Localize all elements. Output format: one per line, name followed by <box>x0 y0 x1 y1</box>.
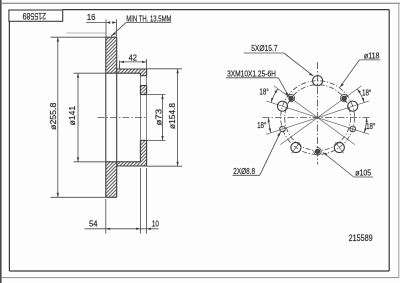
pitch circle dia 105 <box>285 85 351 151</box>
svg-text:ø154.8: ø154.8 <box>167 103 177 129</box>
dia 154.8 arrows <box>176 69 178 166</box>
dia 141 extension lines <box>74 73 106 162</box>
M10 thread hole left (306 deg) <box>288 94 295 101</box>
svg-text:18°: 18° <box>259 86 268 96</box>
thin projection lines (bore and bolt hole) <box>120 65 147 141</box>
friction band outline <box>106 37 117 197</box>
dia 141 arrows <box>77 73 79 162</box>
hub wall outer face <box>146 69 148 166</box>
dia 73 arrows <box>161 95 163 141</box>
svg-text:2XØ8.8: 2XØ8.8 <box>233 166 255 176</box>
svg-text:42: 42 <box>129 52 138 62</box>
scan top edge line <box>2 2 400 4</box>
dimension 54 and 10 extension lines <box>106 168 147 234</box>
bolt hole in section (edges) <box>140 76 146 86</box>
svg-text:ø118: ø118 <box>364 50 380 60</box>
svg-text:ø73: ø73 <box>154 109 164 126</box>
hole dia 8.8 left (252 deg) <box>280 126 286 132</box>
lug hole center tick marks <box>292 142 344 153</box>
hatch: hub wall above bore <box>140 86 146 95</box>
svg-text:ø141: ø141 <box>67 106 77 126</box>
hole dia 8.8 right (108 deg) <box>350 126 356 132</box>
leader 5X dia 15.7 <box>244 53 313 76</box>
hub wall inner face <box>139 73 141 162</box>
centre bore edges <box>140 95 146 141</box>
svg-text:10: 10 <box>152 218 159 228</box>
scan bottom edge line <box>2 277 399 279</box>
svg-text:215589: 215589 <box>22 11 46 21</box>
svg-text:5XØ15.7: 5XØ15.7 <box>251 43 278 53</box>
dia 255.8 arrows <box>57 37 59 197</box>
svg-text:ø105: ø105 <box>355 168 371 178</box>
horizontal centerline <box>263 117 372 119</box>
lug hole top (dia 15.7) <box>313 76 323 86</box>
18 deg dimension arcs <box>269 89 367 133</box>
leader dia 118 <box>340 60 381 87</box>
hat flange top outline <box>106 69 147 73</box>
scan left edge strip <box>0 0 2 283</box>
MIN TH leader arrow <box>111 32 116 36</box>
hatch: hub wall below bore <box>140 140 146 161</box>
hatch: bottom hat flange <box>117 162 147 166</box>
dia 141 dimension line <box>77 73 79 162</box>
svg-text:215589: 215589 <box>349 233 373 243</box>
dimension 42 extension lines <box>120 59 147 69</box>
svg-text:MIN TH. 13.5MM: MIN TH. 13.5MM <box>126 13 171 23</box>
dimension 54/10 line <box>85 228 159 230</box>
hatch: friction band upper part <box>106 37 117 73</box>
hatch: friction band lower part <box>106 162 117 198</box>
svg-text:18°: 18° <box>362 88 371 98</box>
dimension 42 arrows <box>120 61 147 63</box>
leader arrows <box>277 73 344 156</box>
dimension 42 line <box>120 61 147 63</box>
ghost scan artifact line <box>66 32 107 34</box>
leader 3X M10 <box>226 78 289 97</box>
dimension 16 extension lines <box>106 19 117 37</box>
svg-text:18°: 18° <box>257 120 266 130</box>
scan right edge line <box>398 3 400 278</box>
radial construction lines through center <box>266 86 369 145</box>
lug hole upper right <box>348 101 358 111</box>
M10 thread hole bottom (180 deg) <box>314 148 321 155</box>
lug hole upper left <box>277 101 287 111</box>
svg-text:54: 54 <box>89 218 98 228</box>
svg-text:3XM10X1.25-6H: 3XM10X1.25-6H <box>227 69 276 79</box>
hatch: top hat flange and wall <box>117 69 147 76</box>
section axis centerline <box>98 116 148 118</box>
M10 thread hole right (54 deg) <box>341 94 348 101</box>
vertical centerline <box>317 62 319 165</box>
dia 255.8 extension lines <box>51 37 106 197</box>
bolt circle dia 118 <box>281 81 355 155</box>
dia 73 dimension line <box>162 95 164 141</box>
dia 154.8 extension lines <box>147 69 182 166</box>
dimension 16 line <box>86 22 106 24</box>
lug hole lower right <box>334 142 344 152</box>
title block box <box>9 10 63 21</box>
svg-text:18°: 18° <box>366 121 375 131</box>
leader dia 105 <box>323 153 373 178</box>
dia 154.8 dimension line <box>177 69 179 166</box>
dimension 16 arrows <box>106 21 117 23</box>
dia 73 extension lines <box>147 95 166 141</box>
18 deg arc arrows <box>268 89 368 133</box>
svg-text:ø255.8: ø255.8 <box>48 102 58 129</box>
svg-text:16: 16 <box>87 12 96 22</box>
dia 255.8 dimension line <box>57 37 59 197</box>
leader 2X dia 8.8 <box>233 132 281 175</box>
MIN TH leader line <box>111 23 171 37</box>
lug hole lower left <box>291 142 301 152</box>
hat flange bottom outline <box>106 162 147 166</box>
dimension 54/10 arrows <box>106 228 151 230</box>
